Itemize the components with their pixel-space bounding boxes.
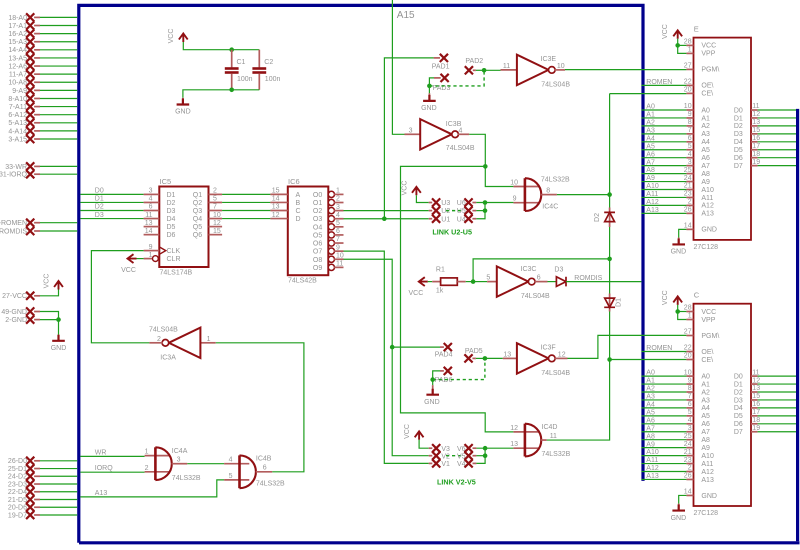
chip E pin 7 (A3) <box>686 133 693 135</box>
svg-text:6-A12: 6-A12 <box>8 112 27 119</box>
pin 24-D2 <box>8 472 40 481</box>
wire <box>80 455 144 457</box>
svg-text:4: 4 <box>459 127 463 134</box>
wire <box>40 89 77 91</box>
svg-text:VPP: VPP <box>701 317 715 324</box>
wire <box>40 483 77 485</box>
wire <box>476 210 485 212</box>
pin 14-A4 <box>8 46 40 55</box>
IC5 pin 15 (Q6) <box>209 234 223 236</box>
wire <box>485 357 503 359</box>
ground symbol (PAD6) <box>424 385 440 406</box>
svg-text:D2: D2 <box>594 213 601 222</box>
chip E pin 4 (A6) <box>686 157 693 159</box>
wire <box>222 210 270 212</box>
svg-text:A2: A2 <box>701 123 710 130</box>
chip E pin 21 (A10) <box>686 189 693 191</box>
wire <box>40 491 77 493</box>
svg-text:Q4: Q4 <box>193 216 202 223</box>
wire <box>641 125 686 127</box>
ground symbol (chip E) <box>671 237 687 255</box>
wire <box>40 499 77 501</box>
svg-text:O6: O6 <box>313 241 322 248</box>
chip C pin 27 (PGM) <box>686 335 693 337</box>
svg-text:3: 3 <box>336 204 340 211</box>
chip E pin 28 (VCC) <box>686 44 693 46</box>
wire <box>40 222 77 224</box>
pin 49-GND <box>1 307 40 316</box>
wire <box>641 133 686 135</box>
svg-text:13: 13 <box>272 204 280 211</box>
pin 9-A9 <box>12 86 40 95</box>
svg-text:WR: WR <box>95 449 107 456</box>
chip E pin 17 (D5) <box>751 149 758 151</box>
wire <box>485 202 513 204</box>
chip C pin 4 (A6) <box>686 423 693 425</box>
svg-text:14: 14 <box>145 228 153 235</box>
pin 8-A10 <box>8 94 40 103</box>
svg-text:15: 15 <box>752 127 760 134</box>
svg-text:13: 13 <box>752 119 760 126</box>
svg-text:A4: A4 <box>701 405 710 412</box>
svg-text:IC5: IC5 <box>160 177 172 186</box>
svg-text:11: 11 <box>336 261 343 268</box>
svg-text:49-GND: 49-GND <box>1 309 27 316</box>
chip C pin 7 (A3) <box>686 399 693 401</box>
chip C pin 16 (D4) <box>751 407 758 409</box>
pin 16-A2 <box>8 30 40 39</box>
svg-text:IC3E: IC3E <box>541 56 557 63</box>
junction <box>675 309 680 314</box>
chip E pin 13 (D2) <box>751 125 758 127</box>
svg-text:15: 15 <box>272 188 280 195</box>
svg-text:O1: O1 <box>313 200 322 207</box>
IC5 pin 6 (D3) <box>144 210 160 212</box>
svg-text:OE\: OE\ <box>701 83 713 90</box>
wire <box>641 478 686 480</box>
svg-text:D0: D0 <box>734 107 743 114</box>
wire <box>547 312 610 441</box>
svg-text:16: 16 <box>752 401 760 408</box>
svg-text:23: 23 <box>684 191 692 198</box>
svg-text:9: 9 <box>336 244 340 251</box>
wire <box>429 78 434 93</box>
pin 19-D7 <box>8 511 40 520</box>
junction <box>483 453 488 458</box>
svg-text:17-A1: 17-A1 <box>8 23 27 30</box>
svg-text:O4: O4 <box>313 224 322 231</box>
svg-text:LINK V2-V5: LINK V2-V5 <box>437 478 476 487</box>
wire <box>40 506 77 508</box>
svg-text:18: 18 <box>752 151 760 158</box>
wire <box>641 173 686 175</box>
pad V2 <box>429 452 450 461</box>
IC5 pin 12 (Q5) <box>209 226 223 228</box>
pin 21-D5 <box>8 495 40 504</box>
wire <box>641 431 686 433</box>
IC5 pin 13 (D5) <box>144 226 160 228</box>
junction <box>390 345 395 350</box>
svg-text:D6: D6 <box>167 232 176 239</box>
wire <box>80 201 143 203</box>
junction <box>56 317 61 322</box>
IC5 pin 11 (D4) <box>144 218 160 220</box>
svg-text:25: 25 <box>684 433 692 440</box>
svg-text:12: 12 <box>558 351 566 358</box>
wire <box>476 455 485 457</box>
wire <box>40 65 77 67</box>
IC5 pin 5 (Q2) <box>209 201 223 203</box>
svg-text:14: 14 <box>684 223 692 230</box>
svg-text:V1: V1 <box>441 461 450 468</box>
svg-text:GND: GND <box>671 249 687 256</box>
svg-text:V2: V2 <box>441 453 450 460</box>
svg-text:9: 9 <box>513 196 517 203</box>
pin 18-A0 <box>8 13 40 21</box>
svg-text:A0: A0 <box>701 107 710 114</box>
svg-text:10: 10 <box>684 103 692 110</box>
wire <box>641 439 686 441</box>
chip E pin 24 (A9) <box>686 181 693 183</box>
wire <box>568 335 687 358</box>
IC6 pin 2 (O1) <box>328 199 334 205</box>
wire <box>758 399 796 401</box>
pad PAD6 <box>435 367 453 384</box>
svg-text:LINK U2-U5: LINK U2-U5 <box>432 228 472 237</box>
wire <box>610 93 687 95</box>
IC5 pin 2 (Q1) <box>209 193 223 195</box>
wire <box>40 25 77 27</box>
pin -ROMEN <box>0 219 40 228</box>
svg-text:4: 4 <box>688 151 692 158</box>
svg-text:74LS04B: 74LS04B <box>446 145 475 152</box>
svg-text:VCC: VCC <box>701 43 716 50</box>
pin 12-A6 <box>8 62 40 71</box>
pad PAD2 <box>465 58 483 74</box>
svg-text:2: 2 <box>336 196 340 203</box>
wire <box>137 258 144 260</box>
wire <box>758 157 796 159</box>
svg-text:U1: U1 <box>441 216 450 223</box>
svg-text:5: 5 <box>688 143 692 150</box>
svg-text:4: 4 <box>688 417 692 424</box>
wire <box>40 33 77 35</box>
inverter IC3F 74LS04B <box>503 343 571 377</box>
chip C pin 2 (A12) <box>686 471 693 473</box>
pin ROMDIS <box>0 227 40 236</box>
chip C pin 12 (D1) <box>751 383 758 385</box>
chip C pin 5 (A5) <box>686 415 693 417</box>
pad U6 <box>457 198 477 207</box>
wire <box>758 383 796 385</box>
chip C pin 6 (A4) <box>686 407 693 409</box>
svg-text:22: 22 <box>684 79 692 86</box>
wire <box>428 281 432 283</box>
svg-text:1k: 1k <box>436 288 444 295</box>
svg-text:23: 23 <box>684 457 692 464</box>
IC6 pin 10 (O8) <box>328 256 334 262</box>
wire <box>40 173 77 175</box>
pad V4 <box>457 459 476 468</box>
svg-text:74LS04B: 74LS04B <box>149 327 178 334</box>
IC5 pin 9 (CLK) <box>144 250 160 252</box>
chip E pin 8 (A2) <box>686 125 693 127</box>
wire <box>758 423 796 425</box>
svg-text:D4: D4 <box>734 405 743 412</box>
svg-text:100n: 100n <box>237 76 253 83</box>
svg-text:PAD1: PAD1 <box>432 63 450 70</box>
svg-text:5: 5 <box>688 409 692 416</box>
svg-text:25-D1: 25-D1 <box>8 466 27 473</box>
svg-text:C: C <box>694 290 700 299</box>
pad V5 <box>457 452 476 461</box>
svg-text:12: 12 <box>752 111 760 118</box>
IC6 pin 15 (A) <box>270 193 287 195</box>
chip C pin 24 (A9) <box>686 447 693 449</box>
svg-text:21-D5: 21-D5 <box>8 497 27 504</box>
svg-text:D1: D1 <box>95 196 104 203</box>
svg-text:11: 11 <box>752 103 759 110</box>
svg-text:IC4D: IC4D <box>542 424 558 431</box>
chip E pin 6 (A4) <box>686 141 693 143</box>
chip E pin 25 (A8) <box>686 173 693 175</box>
chip C pin 21 (A10) <box>686 455 693 457</box>
svg-text:6: 6 <box>688 401 692 408</box>
wire <box>641 375 686 377</box>
wire <box>40 41 77 43</box>
svg-text:B: B <box>296 200 301 207</box>
svg-text:O7: O7 <box>313 249 322 256</box>
chip C pin 18 (D6) <box>751 423 758 425</box>
capacitor C1 <box>225 50 253 90</box>
svg-text:PAD6: PAD6 <box>435 377 453 384</box>
svg-text:PAD5: PAD5 <box>465 348 483 355</box>
svg-text:27C128: 27C128 <box>694 510 719 517</box>
wire (dashed link PAD3 to PAD2 net) <box>429 70 484 86</box>
inverter IC3E 74LS04B <box>501 55 571 89</box>
OR gate IC4C 74LS32B <box>510 176 570 211</box>
svg-text:D6: D6 <box>734 421 743 428</box>
junction <box>607 357 612 362</box>
svg-text:11: 11 <box>752 369 759 376</box>
svg-text:VCC: VCC <box>168 29 175 44</box>
IC5 pin 7 (Q3) <box>209 210 223 212</box>
pad U3 <box>429 198 451 207</box>
pin 10-A8 <box>8 78 40 87</box>
svg-text:VCC: VCC <box>401 181 408 196</box>
chip E pin 15 (D3) <box>751 133 758 135</box>
svg-text:2: 2 <box>213 188 217 195</box>
ground symbol (chip C) <box>671 504 687 522</box>
wire (dashed link V2-V5) <box>446 455 463 457</box>
svg-text:D3: D3 <box>734 397 743 404</box>
svg-text:6: 6 <box>336 228 340 235</box>
wire <box>40 468 77 470</box>
chip C pin 26 (A13) <box>686 478 693 480</box>
svg-text:17: 17 <box>752 143 760 150</box>
svg-text:CLR: CLR <box>167 256 181 263</box>
svg-text:GND: GND <box>175 109 191 116</box>
svg-text:A15: A15 <box>397 10 415 21</box>
IC6 pin 4 (O3) <box>328 216 334 222</box>
junction <box>607 257 612 262</box>
svg-text:D3: D3 <box>554 266 563 273</box>
wire <box>641 455 686 457</box>
svg-text:26: 26 <box>684 473 692 480</box>
svg-text:D6: D6 <box>734 155 743 162</box>
svg-text:D0: D0 <box>95 188 104 195</box>
wire <box>758 117 796 119</box>
wire <box>641 463 686 465</box>
svg-text:5: 5 <box>213 196 217 203</box>
svg-text:74LS32B: 74LS32B <box>541 176 570 183</box>
wire <box>641 423 686 425</box>
svg-text:5: 5 <box>486 275 490 282</box>
wire <box>40 16 77 18</box>
wire <box>222 201 270 203</box>
chip E pin 2 (A12) <box>686 204 693 206</box>
svg-text:CLK: CLK <box>167 248 181 255</box>
wire <box>466 281 473 283</box>
svg-text:VPP: VPP <box>701 51 715 58</box>
wire <box>183 90 259 98</box>
svg-text:D3: D3 <box>95 212 104 219</box>
pin 7-A11 <box>9 102 40 111</box>
chip E pin 23 (A11) <box>686 196 693 198</box>
svg-text:D4: D4 <box>167 216 176 223</box>
svg-text:13: 13 <box>503 351 511 358</box>
wire <box>641 391 686 393</box>
svg-text:2: 2 <box>688 199 692 206</box>
wire <box>610 359 687 361</box>
VCC symbol (IC5 CLR) <box>121 254 136 274</box>
pin 25-D1 <box>8 464 40 473</box>
svg-text:A0: A0 <box>701 373 710 380</box>
pin 26-D0 <box>8 457 40 466</box>
pad PAD5 <box>464 348 482 362</box>
wire <box>80 193 143 195</box>
svg-text:74LS174B: 74LS174B <box>160 270 193 277</box>
svg-text:25: 25 <box>684 167 692 174</box>
diode D1 <box>604 294 622 312</box>
wire <box>641 415 686 417</box>
svg-text:12-A6: 12-A6 <box>8 63 27 70</box>
wire <box>678 39 687 54</box>
svg-text:10: 10 <box>510 180 518 187</box>
svg-text:9: 9 <box>688 111 692 118</box>
svg-text:7: 7 <box>688 393 692 400</box>
svg-text:V3: V3 <box>441 446 450 453</box>
svg-text:16-A2: 16-A2 <box>8 31 27 38</box>
svg-text:3: 3 <box>149 188 153 195</box>
pin 33-WR <box>5 162 40 171</box>
junction <box>675 43 680 48</box>
svg-text:Q2: Q2 <box>193 200 202 207</box>
IC5 pin 4 (D2) <box>144 201 160 203</box>
svg-text:11: 11 <box>503 63 510 70</box>
svg-text:17: 17 <box>752 409 760 416</box>
wire <box>758 165 796 167</box>
svg-text:O3: O3 <box>313 216 322 223</box>
svg-text:PGM\: PGM\ <box>701 67 719 74</box>
OR gate IC4B 74LS32B <box>224 455 285 488</box>
svg-text:14: 14 <box>684 489 692 496</box>
svg-text:D5: D5 <box>734 147 743 154</box>
svg-text:A1: A1 <box>701 115 710 122</box>
svg-text:D1: D1 <box>734 115 743 122</box>
wire <box>473 259 609 282</box>
svg-text:24: 24 <box>684 441 692 448</box>
svg-text:D2: D2 <box>167 200 176 207</box>
wire <box>40 106 77 108</box>
svg-text:A2: A2 <box>701 389 710 396</box>
wire <box>40 312 59 320</box>
svg-text:D7: D7 <box>734 163 743 170</box>
wire <box>641 157 686 159</box>
svg-text:VCC: VCC <box>404 424 411 439</box>
wire <box>609 94 611 208</box>
wire <box>433 371 440 385</box>
svg-text:4: 4 <box>336 212 340 219</box>
wire <box>344 251 429 463</box>
svg-text:27: 27 <box>684 63 692 70</box>
svg-text:4-A14: 4-A14 <box>8 128 27 135</box>
svg-text:8-A10: 8-A10 <box>8 96 27 103</box>
svg-text:A11: A11 <box>701 461 713 468</box>
wire <box>758 125 796 127</box>
svg-text:8: 8 <box>688 385 692 392</box>
svg-text:GND: GND <box>701 493 717 500</box>
svg-text:14: 14 <box>272 196 280 203</box>
wire <box>392 346 440 348</box>
IC6 pin 9 (O7) <box>328 248 334 254</box>
wire <box>40 122 77 124</box>
svg-text:13: 13 <box>752 385 760 392</box>
svg-text:74LS32B: 74LS32B <box>256 481 285 488</box>
wire <box>40 130 77 132</box>
wire <box>222 218 270 220</box>
svg-text:CE\: CE\ <box>701 91 713 98</box>
svg-text:A8: A8 <box>701 171 710 178</box>
wire <box>40 138 77 140</box>
svg-text:A11: A11 <box>701 195 713 202</box>
svg-text:A13: A13 <box>701 477 714 484</box>
svg-text:O2: O2 <box>313 208 322 215</box>
wire <box>40 165 77 167</box>
svg-text:6: 6 <box>688 135 692 142</box>
svg-text:GND: GND <box>51 345 67 352</box>
svg-text:E: E <box>694 24 699 33</box>
wire <box>641 212 686 214</box>
svg-text:24-D2: 24-D2 <box>8 474 27 481</box>
svg-text:A12: A12 <box>701 203 714 210</box>
svg-text:18-A0: 18-A0 <box>8 15 27 22</box>
wire <box>641 383 686 385</box>
svg-text:D3: D3 <box>734 131 743 138</box>
VCC symbol (chip C) <box>662 290 682 305</box>
junction <box>430 377 435 382</box>
VCC symbol (chip E) <box>662 24 682 39</box>
wire <box>419 440 429 448</box>
wire <box>476 448 485 463</box>
svg-text:IC6: IC6 <box>288 177 300 186</box>
svg-text:13: 13 <box>510 441 518 448</box>
svg-text:D3: D3 <box>167 208 176 215</box>
chip C pin 17 (D5) <box>751 415 758 417</box>
wire <box>641 204 686 206</box>
svg-text:13-A5: 13-A5 <box>8 55 27 62</box>
pad PAD3 <box>433 74 451 92</box>
